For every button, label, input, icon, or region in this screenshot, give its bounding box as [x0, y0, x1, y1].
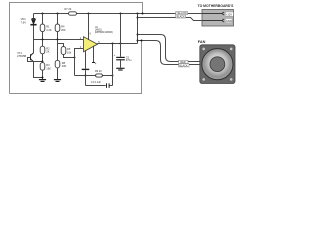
- svg-text:R2: R2: [46, 46, 50, 50]
- wire zobel bottom: [86, 85, 113, 87]
- capacitor C1: [107, 83, 110, 88]
- svg-text:470u: 470u: [126, 59, 132, 62]
- svg-text:BLACK: BLACK: [177, 16, 186, 19]
- svg-text:VT1: VT1: [17, 51, 22, 55]
- screw bottom-left: [202, 78, 205, 81]
- wire R5 tap: [58, 44, 64, 47]
- svg-text:20K: 20K: [61, 28, 66, 32]
- node zobel left junction: [85, 75, 87, 77]
- svg-text:7.6V: 7.6V: [21, 21, 27, 25]
- screw top-left: [202, 48, 205, 51]
- svg-text:R7 2K: R7 2K: [65, 8, 72, 11]
- resistor R7: [69, 12, 77, 15]
- resistor R1: [42, 14, 44, 25]
- speaker dome: [210, 57, 225, 72]
- node base divider junction: [42, 61, 44, 63]
- svg-text:+: +: [114, 53, 116, 57]
- connector header J1: [202, 10, 234, 27]
- wire pin3 node down: [74, 58, 76, 76]
- resistor R9: [96, 74, 103, 77]
- label BLACK wire tag: [176, 15, 186, 19]
- label RED wire tag: [179, 60, 188, 64]
- wire bias bus to pin2: [34, 39, 84, 41]
- ground G1: [39, 80, 46, 82]
- ground G3: [116, 68, 124, 70]
- wire emitter to ground run: [34, 62, 43, 78]
- wire zobel right: [112, 44, 114, 86]
- wire zobel top: [75, 75, 113, 77]
- wire V+ pin6: [88, 14, 90, 41]
- svg-text:C1 0.1uF: C1 0.1uF: [91, 81, 102, 84]
- svg-text:kT815B: kT815B: [17, 54, 26, 58]
- wire output riser: [137, 14, 139, 44]
- op-amp U1: [84, 37, 98, 52]
- svg-text:VD1: VD1: [21, 17, 27, 21]
- speaker LS1: [200, 45, 235, 84]
- wire pin7 bypass column: [85, 50, 87, 68]
- svg-text:10k: 10k: [67, 50, 72, 54]
- label BLACK wire tag 2: [179, 64, 189, 68]
- pin row +12V: [202, 13, 222, 15]
- svg-text:+12V: +12V: [226, 12, 232, 16]
- svg-text:2K: 2K: [46, 50, 49, 54]
- svg-text:R5: R5: [67, 47, 71, 51]
- transistor VT1: [31, 53, 34, 62]
- svg-text:(MP5581/LM386): (MP5581/LM386): [95, 32, 113, 34]
- resistor R5: [61, 47, 66, 55]
- svg-text:R1: R1: [46, 24, 50, 28]
- wire collector: [33, 40, 35, 54]
- node pin3 junction: [74, 57, 76, 59]
- svg-text:TO MOTHERBOARD'S: TO MOTHERBOARD'S: [198, 4, 235, 8]
- node speaker return junction: [141, 40, 143, 42]
- screw top-right: [230, 48, 233, 51]
- node zobel right junction: [112, 75, 114, 77]
- wire base lead: [28, 58, 43, 62]
- svg-text:3.2K: 3.2K: [46, 28, 52, 32]
- svg-text:R8: R8: [62, 61, 66, 65]
- node bus junctions: [42, 39, 59, 41]
- wire outer supply loop: [10, 3, 143, 94]
- capacitor C5 column: [120, 14, 122, 68]
- node emitter-R3 junction: [42, 77, 44, 79]
- screw bottom-right: [230, 78, 233, 81]
- svg-text:GND: GND: [226, 19, 232, 23]
- label YELLOW wire tag: [176, 12, 188, 16]
- pin row GND: [202, 20, 222, 22]
- svg-text:15K: 15K: [46, 66, 51, 70]
- wire to header GND: [138, 18, 203, 21]
- svg-text:R9 20: R9 20: [95, 70, 102, 73]
- wire pin3: [75, 49, 84, 58]
- node rail junctions: [42, 13, 144, 15]
- ground G2: [54, 80, 61, 82]
- resistor R8: [57, 40, 59, 61]
- svg-text:FAN: FAN: [198, 40, 206, 44]
- speaker cone: [204, 51, 230, 77]
- svg-text:R4: R4: [61, 24, 65, 28]
- resistor R4: [57, 14, 59, 25]
- capacitor C3 plate: [82, 68, 90, 70]
- capacitor C5 plates: [116, 57, 125, 59]
- speaker outer rim: [202, 49, 233, 80]
- resistor R3: [42, 62, 44, 63]
- wire pin4 stub: [93, 46, 95, 63]
- zener diode VD1: [30, 19, 36, 25]
- wire speaker lead 1: [138, 35, 200, 62]
- wire zener column: [33, 14, 35, 40]
- wire speaker lead 2: [138, 41, 200, 65]
- wire +12V rail: [34, 13, 203, 15]
- resistor R2: [42, 40, 44, 47]
- wire output pin5: [97, 43, 137, 45]
- svg-text:R3: R3: [46, 63, 50, 67]
- svg-text:20K: 20K: [62, 64, 67, 68]
- svg-text:BLACK: BLACK: [179, 64, 188, 67]
